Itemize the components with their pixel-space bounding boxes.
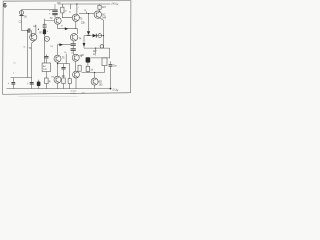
resistor R11 right column xyxy=(102,58,107,66)
svg-text:1k: 1k xyxy=(64,52,66,54)
wire: C8 to R10 xyxy=(87,63,89,67)
electrolytic C8 body xyxy=(86,57,91,62)
wire: col x69.7 to rail xyxy=(69,64,71,79)
svg-text:0,3v: 0,3v xyxy=(112,88,119,93)
node: rail end dot xyxy=(110,88,112,90)
node: bus junction xyxy=(27,30,28,31)
capacitor C9 right edge xyxy=(110,61,112,64)
svg-text:ca 1w: ca 1w xyxy=(70,93,76,95)
transistor TD xyxy=(91,78,98,85)
wire: T2 emitter with arrow xyxy=(58,24,78,29)
transistor TE xyxy=(73,71,80,78)
arrow on wire xyxy=(65,27,69,30)
wire: left bus vertical xyxy=(26,31,28,78)
arrow head wire2 xyxy=(57,44,71,46)
capacitor C11 on T1 emitter col xyxy=(30,82,34,84)
wire: TE emitter to rail xyxy=(75,78,77,89)
svg-text:4k7: 4k7 xyxy=(102,6,107,9)
wire: rail to T-H collector xyxy=(76,4,78,14)
wire: short stub from rail xyxy=(70,4,72,9)
diode row wire xyxy=(84,35,104,37)
wire: T1 collector up xyxy=(35,25,37,35)
wire: left bottom horizontal xyxy=(10,77,31,79)
wire: TC emitter to rail xyxy=(57,83,59,88)
resistor on col x69.7 xyxy=(68,79,71,84)
transistor TB xyxy=(72,54,79,61)
IC box xyxy=(42,63,51,72)
wire: bias column xyxy=(88,14,90,32)
transistor TH xyxy=(72,14,79,21)
capacitor C1 series xyxy=(28,28,30,32)
node dot xyxy=(88,13,89,14)
resistor R7 top right xyxy=(99,4,101,5)
capacitor C10 left xyxy=(12,78,14,83)
node on rail2 xyxy=(76,3,77,4)
wire: input column xyxy=(21,10,23,31)
wire: horizontal y63.5 xyxy=(58,63,70,65)
capacitor above box xyxy=(44,56,48,58)
wire: T2 base feed xyxy=(45,20,55,22)
svg-text:BD: BD xyxy=(99,81,103,83)
wire: horizontal y72.5 xyxy=(82,72,105,74)
wire: TD emitter xyxy=(94,85,96,89)
capacitor C6 xyxy=(72,45,74,48)
transistor T2 xyxy=(54,17,61,24)
wire: box top xyxy=(45,59,47,63)
node dot xyxy=(57,63,58,64)
speaker terminal bracket xyxy=(109,48,111,58)
resistor box col x63.5 xyxy=(62,78,65,84)
wire: TA emitter down through TC xyxy=(57,62,59,76)
wire: down to T3 xyxy=(77,29,79,34)
node dot xyxy=(95,48,96,49)
wire: TH emitter down xyxy=(75,21,77,28)
wire: mid column between TA TB xyxy=(65,54,67,64)
wire: input horizontal xyxy=(22,30,28,32)
resistor R3 on bus xyxy=(43,24,46,28)
transistor TF xyxy=(70,34,77,41)
capacitor bank C3/C4 xyxy=(52,10,57,11)
wire: down to TA xyxy=(56,45,58,56)
transistor TA xyxy=(54,55,61,62)
stub tick on base wire xyxy=(86,11,88,13)
capacitor C5 xyxy=(72,41,74,43)
lamp circle on bus xyxy=(44,36,49,41)
svg-text:6: 6 xyxy=(3,2,7,9)
wire: TD collector xyxy=(94,73,96,79)
svg-text:2k: 2k xyxy=(65,10,67,12)
rail2 +supply xyxy=(58,3,111,5)
wire: TG emitter to diode row xyxy=(100,18,104,48)
wire: into T1 base xyxy=(30,31,33,37)
pot wiper arrow xyxy=(95,48,97,53)
page border frame xyxy=(3,1,131,95)
svg-text:1k: 1k xyxy=(84,10,86,12)
capacitor col x63.5 xyxy=(63,64,65,67)
wire: left end of diode row down with arrow xyxy=(83,36,85,43)
wire: box bottom to resistor xyxy=(45,72,47,79)
wire: mid bus x44.5 xyxy=(44,19,46,63)
wire: output bottom y58 xyxy=(91,57,110,59)
wire: T1 emitter to ground rail xyxy=(32,40,36,89)
wire: +rail left segment xyxy=(22,9,53,11)
transistor T1 xyxy=(30,34,37,41)
diode D3 xyxy=(93,34,97,38)
wire: TB to TE link xyxy=(75,61,77,71)
resistor R10 xyxy=(86,66,90,71)
resistor R12 xyxy=(45,78,49,84)
capacitor C2 electrolytic blob xyxy=(43,29,46,34)
wire: output top y48 xyxy=(84,47,110,49)
diode D2 down xyxy=(87,31,90,35)
node dot xyxy=(38,29,39,30)
electrolytic C12 blob xyxy=(38,80,40,82)
diode D1 xyxy=(19,11,23,15)
svg-text:1n: 1n xyxy=(69,12,71,14)
resistor box right of link xyxy=(78,65,81,71)
node dot xyxy=(103,35,104,36)
transistor TG xyxy=(94,11,101,18)
ground rail xyxy=(7,88,111,90)
transistor TC xyxy=(54,76,61,83)
resistor R5 column xyxy=(61,4,63,7)
svg-text:BC: BC xyxy=(102,14,106,16)
svg-text:1N: 1N xyxy=(24,16,27,19)
node dot xyxy=(94,72,95,73)
trimmer circle xyxy=(98,34,102,38)
svg-text:AC: AC xyxy=(43,65,46,68)
wire: base line to TG xyxy=(79,13,94,15)
